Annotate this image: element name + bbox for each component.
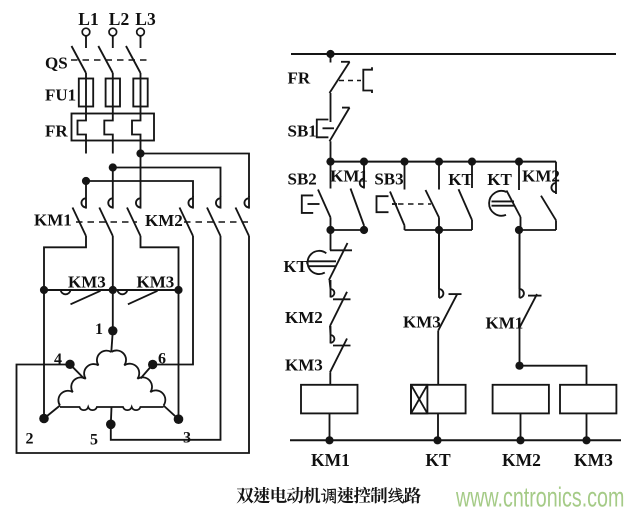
contactor KM3 bridge contact A [61,290,101,304]
label FR [45,122,68,141]
node coil KM2 bottom [516,436,524,444]
pushbutton SB1 (NC) [317,108,350,142]
label FU1 [45,86,76,105]
wire bottom tap to terminal 5 [110,407,113,424]
node bus junction x364 [360,158,368,166]
wire rail-mid to terminal 1 [112,290,114,331]
svg-text:6: 6 [158,351,166,368]
node bus junction x519 [515,158,523,166]
label KM2 (main) [145,211,183,230]
wire control top rail [291,53,616,55]
pushbutton SB3 (NO) [377,162,405,226]
wire branch to KM3 coil [520,366,587,385]
node bus junction x472 [468,158,476,166]
contactor KM1 aux contact (NO) [351,162,365,226]
svg-text:SB2: SB2 [288,170,317,189]
svg-text:KT: KT [284,257,308,276]
wire phase2 below FR [112,168,114,197]
wire QS1-FU1 [85,73,87,79]
node rail-left junction [40,286,48,294]
svg-text:2: 2 [26,431,34,448]
wire KM2-c3 to terminal 4 [17,236,250,453]
wire QS2-FU1 [112,73,114,79]
node terminal 1 [95,321,118,338]
label KT (coil) [425,450,451,470]
svg-text:SB3: SB3 [374,170,403,189]
node terminal 5 [90,420,116,449]
svg-text:KM1: KM1 [330,167,368,186]
wire KT to KM2-NC [330,280,331,289]
svg-text:L3: L3 [135,9,156,29]
node lower bus A2 [360,226,368,234]
contactor KM2 main contact 2 [207,196,221,236]
node top-rail junction [326,50,334,58]
node junction phase2 [109,163,117,171]
label KM3 (bridge A) [68,273,106,292]
svg-text:KT: KT [487,170,512,189]
svg-text:KT: KT [425,450,451,470]
label KM3 (coil) [574,450,613,470]
label KM1 (main) [34,211,72,230]
wire QS3-FU1 [140,73,142,79]
relay contact KT delayed-close (NO) [489,162,520,217]
wire KM3 rail [44,289,179,291]
node L2 terminal [109,9,129,48]
relay contact KT instant (NO) [459,162,473,220]
wire KM1-NC down [519,328,521,366]
wire tap to terminal 4 [70,364,84,378]
wire tap to terminal 6 [141,365,153,379]
node junction phase1 [82,177,90,185]
svg-text:KM3: KM3 [574,450,613,470]
svg-text:FR: FR [45,122,68,141]
watermark www.cntronics.com [455,482,624,513]
svg-text:KM1: KM1 [311,450,350,470]
node L3 terminal [135,9,156,48]
svg-text:5: 5 [90,432,98,449]
contactor KM2 main contact 3 [236,196,250,236]
node rail-mid junction [109,286,117,294]
fuse FU1 b [106,79,120,114]
pushbutton SB2 (NO) [302,162,331,218]
linkage KM2 dashed [184,221,250,223]
node coil KM3 bottom [582,436,590,444]
node bus junction x404 [400,158,408,166]
wire apex to terminal 1 [111,331,113,352]
node coil KT bottom [433,436,441,444]
wire KM1-c2 down [112,236,114,290]
thermal contact FR (NC) [330,54,350,93]
wire coil KM3 to bottom bus [586,413,588,440]
wire to KT delayed-open [330,230,332,250]
wire control bottom bus [290,439,621,441]
wire corner to terminal 3 [164,406,179,420]
svg-text:1: 1 [95,321,103,338]
label KM1 (NC) [486,314,524,333]
wire FR to SB1 [330,93,332,122]
wire branch phase1 to KM2-c1 [86,181,193,197]
wire KM2-aux down [555,220,557,230]
wire branch phase3 to KM2-c3 [141,154,250,198]
wire lower bus C [519,229,556,231]
coil KM1 [301,385,358,414]
wire corner to terminal 2 [44,406,60,419]
wire rail-left to terminal 2 [43,290,45,419]
label KM2 (aux) [522,167,560,186]
thermal relay FR heater element 1 [78,114,87,154]
svg-text:4: 4 [54,351,62,368]
contactor KM2 interlock (NC) [330,280,351,326]
switch QS linkage dashed [71,59,148,61]
label QS [45,54,68,73]
svg-text:L1: L1 [78,9,98,29]
contactor KM2 main contact 1 [180,196,194,236]
pushbutton SB3 linked contact [426,162,440,218]
wire lower bus B [405,229,473,231]
switch QS blade 3 [126,46,141,73]
switch QS blade 1 [72,46,87,73]
contactor KM1 interlock (NC) [520,230,542,328]
node terminal 3 [174,414,191,446]
wire phase1 below FR [85,181,87,196]
label KT (delayed) [487,170,512,189]
label KT (delay NC) [284,257,308,276]
label KM3 (bridge B) [137,273,175,292]
wire coil KM2 to bottom bus [520,413,522,440]
thermal relay FR flag symbol [363,67,372,93]
wire SB2 down [330,218,332,231]
wire lower bus A [331,229,365,231]
wire branch phase2 to KM2-c2 [113,168,221,198]
svg-text:KM2: KM2 [145,211,183,230]
wire KM2-c1 to terminal 6 [153,236,193,365]
node bus junction x439 [435,158,443,166]
svg-text:KM1: KM1 [34,211,72,230]
coil KM2 [493,385,549,414]
label KM1 (coil) [311,450,350,470]
relay contact KT delayed-open (NC) [308,243,352,280]
fuse FU1 a [79,79,93,114]
svg-text:SB1: SB1 [288,122,317,141]
label SB1 [288,122,317,141]
wire KT-delayed down [520,217,522,230]
svg-text:KM3: KM3 [137,273,175,292]
wire rail-right to terminal 3 [178,290,180,419]
label KM2 (coil) [502,450,541,470]
wire KM1-aux down [363,226,365,231]
label KM2 (NC) [285,308,323,327]
label SB3 [374,170,403,189]
svg-text:KM3: KM3 [285,356,323,375]
motor winding left side (1-4-2) [58,351,111,406]
node bus junction x330 [326,158,334,166]
contactor KM1 main contact 2 [99,196,113,236]
svg-text:KM3: KM3 [68,273,106,292]
wire KM1-c1 to rail left [44,236,86,290]
fuse FU1 c [133,79,147,114]
node lower bus A1 [326,226,334,234]
contactor KM2 aux contact (NO) [541,162,556,221]
svg-text:www.cntronics.com: www.cntronics.com [455,482,624,513]
node junction phase3 [136,149,144,157]
wire KM2-NC to KM3-NC [329,326,332,335]
motor winding bottom side (2-5-3) [60,407,164,410]
motor winding right side (1-6-3) [111,350,165,405]
linkage FR dashed [339,80,361,82]
wire KT-instant down [471,220,473,230]
node rail-right junction [174,286,182,294]
switch QS blade 2 [98,46,113,73]
linkage SB3 dashed [398,203,431,205]
thermal relay FR heater element 3 [132,114,141,154]
contactor KM3 bridge contact B [117,290,157,304]
wire KM2-c2 to terminal 5 [111,236,221,440]
svg-text:KM2: KM2 [522,167,560,186]
node terminal 4 [54,351,75,369]
coil KM3 [560,385,616,414]
svg-text:KT: KT [448,170,473,189]
label KM3 (NC) [285,356,323,375]
wire coil KT to bottom bus [437,413,439,440]
label KM3 (mid NC) [403,313,441,332]
svg-text:KM3: KM3 [403,313,441,332]
wire phase3 below FR [140,154,142,197]
label KT (instant) [448,170,473,189]
caption 双速电动机调速控制线路 [237,487,421,504]
contactor KM1 main contact 3 [127,196,141,236]
wire SB1 to bus [330,141,332,161]
node coils branch junction [515,362,523,370]
label KM1 (aux) [330,167,368,186]
svg-text:3: 3 [183,430,191,447]
wire coil KM1 to bottom bus [329,413,331,440]
label FR (control) [288,69,311,88]
wire KM3-NC to coil KM1 [329,372,331,385]
linkage KM1 dashed [76,221,137,223]
contactor KM1 main contact 1 [73,196,87,236]
node terminal 6 [148,351,166,370]
label SB2 [288,170,317,189]
node lower bus B1 [435,226,443,234]
svg-text:KM2: KM2 [502,450,541,470]
wire KT2 column down [519,230,521,289]
thermal relay FR box [72,114,155,141]
wire SB3 column down [438,230,440,289]
svg-text:FR: FR [288,69,311,88]
contactor KM3 interlock mid (NC) [438,230,461,331]
svg-text:KM1: KM1 [486,314,524,333]
wire KM1-c3 to rail right [141,236,179,290]
node L1 terminal [78,9,98,48]
wire control bus [331,161,557,163]
contactor KM3 interlock (NC) [330,326,351,372]
thermal relay FR heater element 2 [104,114,113,154]
node coil KM1 bottom [325,436,333,444]
wire SB3 down [404,226,406,231]
svg-text:L2: L2 [109,9,129,29]
svg-text:KM2: KM2 [285,308,323,327]
svg-text:QS: QS [45,54,68,73]
node terminal 2 [26,414,49,448]
node lower bus C1 [515,226,523,234]
svg-text:FU1: FU1 [45,86,76,105]
coil KT (time relay) [411,385,466,414]
wire KM3-NC to coil KT [437,331,439,385]
wire SB3-linked down [438,218,440,231]
